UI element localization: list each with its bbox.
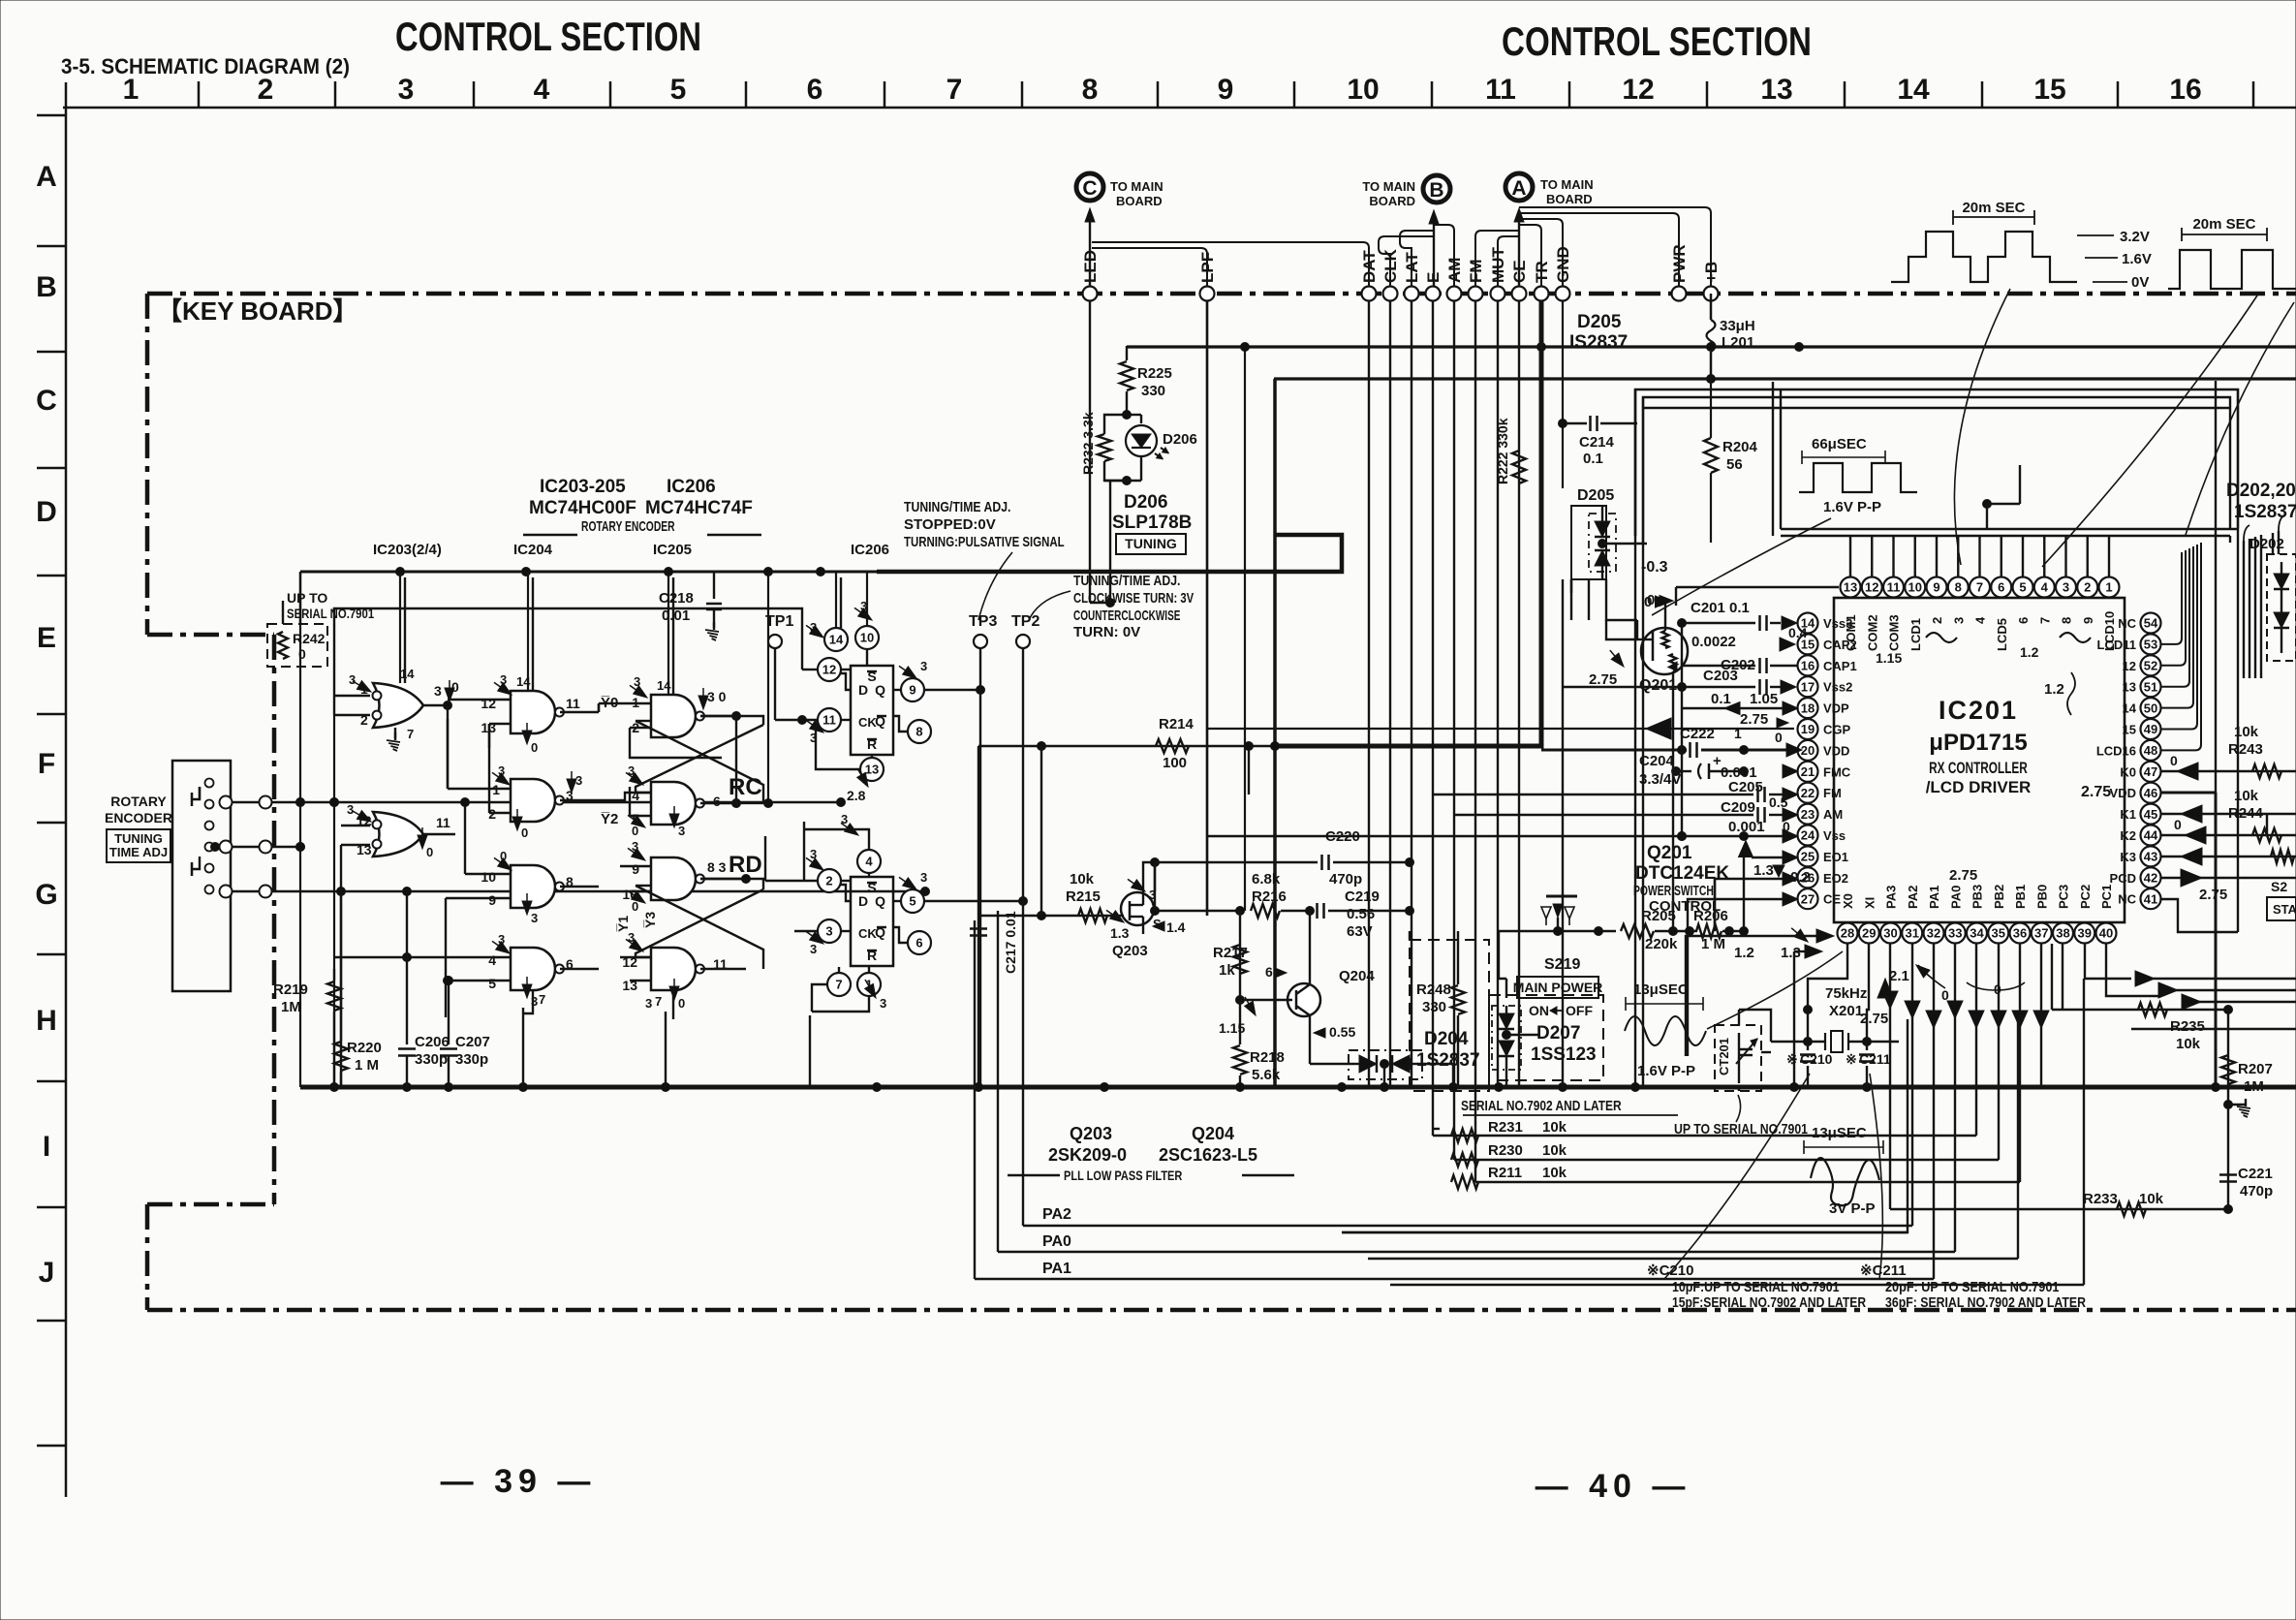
rotary encoder body [172, 761, 231, 991]
svg-text:14: 14 [829, 633, 844, 647]
svg-text:PWR: PWR [1670, 244, 1689, 283]
svg-text:CONTROL SECTION: CONTROL SECTION [1502, 18, 1812, 64]
svg-text:0V: 0V [2131, 274, 2149, 291]
svg-text:28: 28 [1841, 926, 1854, 941]
wire S219 to D207 [1499, 931, 1506, 979]
svg-text:※C210: ※C210 [1647, 1262, 1693, 1279]
IC201 pin 26 (EO2) [1798, 867, 1818, 888]
node TR connector circle [1535, 287, 1549, 301]
flip-flop IC206b body [851, 877, 893, 966]
svg-text:3: 3 [1951, 617, 1966, 624]
gate IC205b wires [599, 793, 651, 800]
wire pin13 to -0.3 [1675, 587, 1677, 606]
svg-text:9: 9 [909, 683, 915, 698]
svg-text:24: 24 [1801, 828, 1815, 843]
svg-text:7: 7 [407, 727, 414, 741]
transistor Q203 JFET [1121, 892, 1154, 925]
svg-text:3: 3 [645, 996, 652, 1011]
svg-text:5: 5 [909, 894, 915, 909]
svg-text:2: 2 [1930, 617, 1944, 624]
svg-text:R207: R207 [2238, 1061, 2273, 1077]
svg-text:0: 0 [298, 646, 306, 662]
IC201 pin 27 (CE) [1798, 888, 1818, 909]
wire TR thick route to gates [1275, 301, 1541, 746]
svg-text:7: 7 [1976, 580, 1983, 595]
label TUNING TIME ADJ box [107, 829, 171, 862]
svg-text:0.56: 0.56 [1347, 906, 1375, 922]
svg-text:D206: D206 [1163, 431, 1197, 448]
svg-text:14: 14 [400, 667, 415, 681]
svg-text:25: 25 [1801, 850, 1815, 864]
svg-text:20: 20 [1801, 743, 1815, 758]
svg-text:Q: Q [875, 893, 885, 909]
svg-text:C222: C222 [1680, 726, 1715, 742]
svg-text:4: 4 [2041, 580, 2049, 595]
svg-text:PB1: PB1 [2013, 885, 2028, 909]
svg-text:5: 5 [488, 976, 496, 991]
svg-text:3: 3 [678, 824, 685, 838]
wire pin31 drop [1911, 944, 1913, 1226]
IC201 pin 3 (8) [2056, 577, 2076, 598]
svg-text:1.6V: 1.6V [2122, 251, 2152, 267]
wire FF2 S rail [803, 822, 805, 881]
wire CLK vertical [1389, 301, 1391, 1087]
svg-text:CAP1: CAP1 [1823, 659, 1857, 673]
svg-text:7: 7 [539, 992, 545, 1007]
svg-text:3: 3 [2063, 580, 2069, 595]
svg-text:OFF: OFF [1566, 1003, 1593, 1018]
IC201 pin 21 (FMC) [1798, 762, 1818, 782]
svg-text:3: 3 [531, 911, 538, 925]
svg-text:39: 39 [2078, 926, 2092, 941]
wire LAT vertical [1411, 301, 1412, 1087]
wires IC201 top pin risers [1849, 536, 1851, 576]
svg-text:1M: 1M [2244, 1078, 2264, 1095]
svg-text:A: A [1511, 177, 1526, 200]
svg-text:R204: R204 [1722, 439, 1758, 455]
dashed box R248 [1410, 940, 1489, 1091]
wire pin40 drop [2106, 944, 2160, 996]
wire R242 stub [282, 601, 284, 624]
resistor R214 100 [1156, 739, 1189, 753]
wire x1613 lower [1562, 579, 1564, 701]
svg-text:X201: X201 [1829, 1003, 1863, 1019]
wire pin24 Vss [1207, 835, 1783, 837]
wire D205 to Q201 base [1606, 579, 1637, 620]
transistor Q204 [1288, 983, 1320, 1016]
wire R233 row [1890, 1208, 2228, 1210]
gate IC205a NAND [651, 695, 696, 737]
IC201 pin 48 (LCD16) [2141, 740, 2161, 761]
svg-text:1.3: 1.3 [1753, 862, 1774, 879]
wire R215 row [978, 915, 1114, 917]
resistor R216 6.8k [1251, 904, 1280, 918]
svg-text:— 39 —: — 39 — [441, 1463, 597, 1500]
svg-text:6: 6 [1265, 964, 1273, 980]
svg-text:2.75: 2.75 [1589, 671, 1617, 688]
resistor R235 10k [2138, 1003, 2167, 1016]
svg-text:SERIAL NO.7902 AND LATER: SERIAL NO.7902 AND LATER [1461, 1098, 1622, 1114]
svg-text:K1: K1 [2120, 807, 2136, 822]
svg-text:1k: 1k [1219, 962, 1235, 979]
IC201 pin 9 (2) [1927, 577, 1947, 598]
wire Y0 connection [598, 703, 600, 712]
svg-text:LED: LED [1081, 250, 1100, 283]
svg-text:B: B [1429, 179, 1443, 202]
triangles under bottom pins [1882, 991, 1898, 1009]
svg-text:R248: R248 [1416, 981, 1451, 998]
IC206b pin 7 [827, 973, 851, 996]
wire bus y393 [1274, 377, 2296, 380]
capacitor C210 [1800, 1053, 1815, 1056]
gate IC205c wires [620, 865, 651, 867]
svg-text:15pF:SERIAL NO.7902 AND LATER: 15pF:SERIAL NO.7902 AND LATER [1672, 1294, 1866, 1311]
wire X0 XI to crystal [1808, 944, 1847, 1010]
diode pack D207 [1492, 1006, 1521, 1070]
svg-text:D205: D205 [1577, 312, 1622, 332]
IC201 pin 15 (CAP2) [1798, 634, 1818, 654]
svg-text:PB2: PB2 [1992, 885, 2006, 909]
wire PA1 row [975, 1278, 1934, 1280]
svg-text:0: 0 [2170, 753, 2178, 768]
svg-text:3.2V: 3.2V [2120, 229, 2150, 245]
svg-text:COM2: COM2 [1865, 614, 1879, 651]
junction dots on buses [1537, 343, 1546, 352]
capacitor C219 0.56 63V [1316, 903, 1319, 919]
gate IC203a in/out wires [334, 695, 370, 697]
wire CT201 connections [1738, 1010, 1740, 1025]
svg-text:VDD: VDD [2110, 786, 2136, 800]
IC201 pin 35 (PB2) [1988, 923, 2008, 944]
svg-text:66μSEC: 66μSEC [1812, 436, 1867, 452]
svg-text:1.15: 1.15 [1876, 650, 1902, 666]
svg-text:3: 3 [434, 683, 442, 699]
svg-text:18: 18 [1801, 701, 1815, 715]
wire R235 row [2052, 1009, 2228, 1011]
svg-text:CGP: CGP [1823, 723, 1851, 737]
wire IC203a output down [447, 705, 449, 719]
svg-text:EO2: EO2 [1823, 871, 1848, 886]
wire pin18 VDP [1682, 707, 1784, 709]
svg-text:0.1: 0.1 [1711, 691, 1731, 707]
IC206a pin 8 [908, 720, 931, 743]
svg-text:MUT: MUT [1489, 247, 1507, 283]
svg-text:Q203: Q203 [1112, 943, 1148, 959]
svg-text:R235: R235 [2170, 1018, 2205, 1035]
gate IC204b wires [448, 788, 511, 790]
keyboard border notch bottom [147, 1202, 274, 1207]
svg-text:C203: C203 [1703, 668, 1738, 684]
IC206b pin 4 [857, 850, 881, 873]
svg-text:C204: C204 [1639, 753, 1675, 769]
node E connector circle [1426, 287, 1441, 301]
svg-text:K0: K0 [2120, 764, 2136, 779]
wire R217 vertical [1239, 911, 1241, 1000]
svg-text:10: 10 [860, 631, 874, 645]
svg-text:CE: CE [1510, 260, 1529, 283]
wire verticals gate area [406, 891, 408, 957]
svg-text:K2: K2 [2120, 828, 2136, 843]
IC206a pin 14 [824, 628, 848, 651]
svg-text:RD: RD [729, 852, 762, 878]
wire pin25 EO1 [1752, 857, 1783, 858]
leader curve sine to pin28 [1707, 951, 1843, 1029]
svg-text:C220: C220 [1325, 828, 1360, 845]
svg-text:1.2: 1.2 [2020, 644, 2039, 660]
svg-text:31: 31 [1906, 926, 1919, 941]
svg-text:1.05: 1.05 [1750, 691, 1778, 707]
svg-text:MC74HC74F: MC74HC74F [645, 498, 753, 518]
svg-text:【KEY BOARD】: 【KEY BOARD】 [157, 296, 358, 326]
svg-text:3: 3 [575, 773, 582, 788]
svg-text:PCD: PCD [2110, 871, 2136, 886]
svg-text:14: 14 [1897, 74, 1930, 106]
svg-text:R231: R231 [1488, 1119, 1523, 1136]
svg-text:C207: C207 [455, 1034, 490, 1050]
IC201 pin 12 (COM2) [1862, 577, 1882, 598]
svg-text:47: 47 [2144, 764, 2157, 779]
resistor R244 10k [2252, 828, 2281, 842]
svg-text:0: 0 [1775, 730, 1783, 745]
capacitor C206 330p [406, 957, 408, 1044]
svg-text:32: 32 [1927, 926, 1940, 941]
svg-text:R206: R206 [1693, 908, 1728, 924]
IC201 pin 30 (PA3) [1880, 923, 1901, 944]
svg-text:41: 41 [2144, 891, 2157, 906]
svg-text:11: 11 [1887, 580, 1901, 595]
svg-text:2.75: 2.75 [1740, 711, 1768, 728]
diode pack D205 [1571, 506, 1606, 579]
svg-text:BOARD: BOARD [1116, 194, 1163, 208]
transistor Q201 [1641, 628, 1688, 674]
wire pin34 drop [1975, 944, 1977, 1136]
node LPF connector circle [1200, 287, 1215, 301]
svg-text:0: 0 [2174, 817, 2182, 832]
IC201 pin 33 (PA0) [1945, 923, 1966, 944]
svg-text:2SK209-0: 2SK209-0 [1048, 1145, 1127, 1165]
label MAIN POWER box [1517, 977, 1598, 998]
svg-text:X0: X0 [1841, 893, 1855, 909]
svg-text:IC205: IC205 [653, 542, 692, 558]
leader curve from square wave to IC pin 4 [2042, 296, 2257, 567]
IC201 pin 23 (AM) [1798, 804, 1818, 825]
svg-text:1S2837: 1S2837 [1416, 1050, 1480, 1071]
svg-text:TO MAIN: TO MAIN [1110, 179, 1164, 194]
svg-text:75kHz: 75kHz [1825, 985, 1867, 1002]
svg-text:0.4: 0.4 [1788, 625, 1808, 640]
wire K2 row [2160, 834, 2296, 836]
gate IC204a wires [448, 699, 511, 701]
svg-text:38: 38 [2056, 926, 2069, 941]
svg-text:0.01: 0.01 [662, 607, 690, 624]
IC201 pin 44 (K2) [2141, 826, 2161, 846]
svg-text:B: B [36, 271, 57, 303]
keyboard border left lower [145, 1204, 150, 1310]
IC201 pin 34 (PB3) [1967, 923, 1987, 944]
IC201 pin 18 (VDP) [1798, 698, 1818, 718]
resistor R232 3.3k [1104, 415, 1127, 434]
connector A to main board [1505, 173, 1533, 201]
IC206b pin 6 [908, 931, 931, 954]
svg-text:R215: R215 [1066, 888, 1101, 905]
waveform 20mSEC square right [2168, 250, 2296, 289]
gate IC204a NAND [511, 691, 555, 733]
svg-text:9: 9 [1218, 74, 1234, 106]
wire thick bus +B (y360) [1127, 345, 2296, 348]
svg-text:J: J [39, 1257, 55, 1289]
resistor R204 56 [1710, 381, 1712, 438]
svg-text:FM: FM [1467, 259, 1485, 283]
svg-text:IC203-205: IC203-205 [540, 477, 626, 497]
junction dots bottom bus [330, 1083, 339, 1092]
wire bundle to C (LED/LPF/DAT) [1092, 248, 1207, 294]
svg-text:3.3/4V: 3.3/4V [1639, 771, 1681, 788]
svg-text:R220: R220 [347, 1040, 382, 1056]
wire R231 row [1433, 1128, 1440, 1130]
svg-text:Vss2: Vss2 [1823, 680, 1852, 695]
node DAT connector circle [1362, 287, 1377, 301]
IC206a pin 11 [818, 708, 841, 732]
IC201 pin 51 (13) [2141, 676, 2161, 697]
svg-text:AM: AM [1445, 258, 1464, 283]
inductor L201 33uH [1710, 294, 1713, 320]
svg-text:1.15: 1.15 [1219, 1020, 1245, 1036]
svg-text:13μSEC: 13μSEC [1812, 1125, 1867, 1141]
resistor R233 10k [2117, 1202, 2146, 1216]
svg-text:2SC1623-L5: 2SC1623-L5 [1159, 1145, 1257, 1165]
svg-text:TUNING: TUNING [1125, 536, 1177, 551]
wire PCD row [2160, 877, 2296, 879]
svg-text:PA1: PA1 [1042, 1261, 1071, 1277]
svg-text:Vss: Vss [1823, 828, 1846, 843]
gate IC203a exclusive-OR [373, 683, 423, 728]
svg-text:1.4: 1.4 [1166, 919, 1186, 935]
IC206a pin 12 [818, 658, 841, 681]
svg-text:1M: 1M [281, 999, 301, 1015]
capacitor C205 on FM wire [1434, 794, 1753, 795]
svg-text:VDP: VDP [1823, 701, 1849, 716]
svg-text:TUNING/TIME ADJ.: TUNING/TIME ADJ. [904, 499, 1010, 515]
svg-text:LCD1: LCD1 [1908, 618, 1923, 651]
svg-text:PC1: PC1 [2099, 885, 2114, 909]
connector B to main board [1423, 175, 1450, 202]
gate IC204c wires [465, 873, 511, 875]
svg-text:8: 8 [915, 725, 922, 739]
svg-text:20pF: UP TO SERIAL NO.7901: 20pF: UP TO SERIAL NO.7901 [1885, 1279, 2059, 1295]
svg-text:2.75: 2.75 [1949, 867, 1977, 884]
svg-text:1 M: 1 M [1701, 936, 1725, 952]
svg-text:8: 8 [2060, 617, 2074, 624]
svg-text:1.3: 1.3 [1781, 945, 1801, 961]
svg-text:Q201: Q201 [1639, 677, 1677, 694]
wire R206 up to pin26 [1714, 879, 1716, 931]
svg-text:12: 12 [1622, 74, 1654, 106]
svg-text:3V P-P: 3V P-P [1829, 1200, 1876, 1217]
wire x1010 vertical [977, 746, 979, 1087]
wire R214 row [978, 745, 1541, 747]
svg-text:470p: 470p [2240, 1183, 2273, 1199]
svg-text:4: 4 [865, 855, 873, 869]
svg-text:0.5: 0.5 [1769, 794, 1788, 810]
svg-text:ROTARY: ROTARY [110, 794, 167, 809]
wire vertical from bus x1316 [1273, 379, 1277, 1087]
svg-text:10: 10 [481, 869, 496, 885]
IC201 pin 28 (X0) [1838, 923, 1858, 944]
wire pin35 drop [1998, 944, 2000, 1160]
svg-text:15: 15 [2033, 74, 2065, 106]
svg-text:C214: C214 [1579, 434, 1615, 451]
svg-text:TO MAIN: TO MAIN [1362, 179, 1415, 194]
IC206b pin 2 [818, 869, 841, 892]
svg-text:36pF: SERIAL NO.7902 AND LATER: 36pF: SERIAL NO.7902 AND LATER [1885, 1294, 2086, 1311]
svg-text:R244: R244 [2228, 805, 2264, 822]
svg-text:Q204: Q204 [1339, 968, 1375, 984]
resistor R219 1M [333, 969, 335, 981]
svg-text:D205: D205 [1577, 487, 1614, 504]
svg-text:42: 42 [2144, 870, 2157, 885]
svg-text:5: 5 [670, 74, 687, 106]
trimmer CT201 dashed box [1715, 1025, 1761, 1091]
svg-text:4: 4 [1973, 616, 1988, 624]
svg-text:5.6k: 5.6k [1252, 1067, 1281, 1083]
svg-text:— 40 —: — 40 — [1536, 1468, 1691, 1505]
leader curve right border to D202 [2186, 302, 2294, 535]
resistor R242 0 in dashed box [267, 624, 327, 667]
svg-text:50: 50 [2144, 701, 2157, 715]
svg-text:10k: 10k [1542, 1119, 1567, 1136]
svg-text:R214: R214 [1159, 716, 1195, 732]
gate IC204d NAND [511, 948, 555, 990]
svg-text:R242: R242 [293, 631, 326, 646]
svg-text:1: 1 [123, 74, 140, 106]
svg-text:14: 14 [2123, 701, 2137, 716]
IC201 pin 46 (VDD) [2141, 783, 2161, 803]
cross-couple IC205 c-d [700, 879, 763, 889]
node LED connector circle [1083, 287, 1098, 301]
svg-text:PA1: PA1 [1927, 886, 1941, 909]
svg-text:RX CONTROLLER: RX CONTROLLER [1929, 759, 2028, 777]
resistor R225 330 [1126, 346, 1128, 360]
wire x1075 vertical [1040, 746, 1042, 916]
wire R225 top junction [1241, 343, 1250, 352]
svg-text:10k: 10k [1542, 1142, 1567, 1159]
svg-text:D: D [858, 893, 868, 909]
gate IC203b wires [341, 825, 370, 826]
svg-text:10: 10 [1347, 74, 1379, 106]
svg-text:7: 7 [946, 74, 963, 106]
resistor R207 1M [2221, 1055, 2235, 1084]
svg-text:12: 12 [2123, 659, 2136, 673]
svg-text:C211: C211 [1859, 1051, 1891, 1067]
IC201 pin 43 (K3) [2141, 846, 2161, 866]
wire rows right of IC [2131, 1028, 2296, 1030]
svg-text:11: 11 [436, 815, 450, 830]
svg-text:3: 3 [398, 74, 415, 106]
wire pin30 drop [1889, 944, 1891, 1209]
svg-text:TO MAIN: TO MAIN [1540, 177, 1594, 192]
svg-text:23: 23 [1801, 807, 1815, 822]
svg-text:1.6V P-P: 1.6V P-P [1823, 499, 1881, 515]
svg-text:SLP178B: SLP178B [1112, 513, 1192, 533]
IC201 pin 47 (K0) [2141, 762, 2161, 782]
svg-text:44: 44 [2144, 828, 2158, 843]
gate IC205b NAND RS [651, 782, 696, 825]
svg-text:17: 17 [1801, 679, 1815, 694]
svg-text:TURN: 0V: TURN: 0V [1073, 624, 1140, 640]
wire LED riser with arrow [1089, 213, 1091, 294]
wire vertical x462 [447, 719, 449, 789]
wire pin19 CGP with arrow [1207, 728, 1794, 730]
